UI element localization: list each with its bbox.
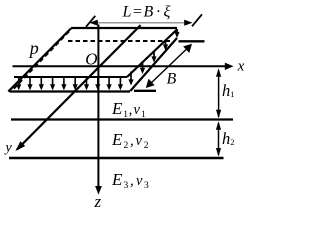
load arrow r4 (142, 61, 144, 68)
plate back-top edge (71, 27, 177, 29)
load arrow r3 (153, 51, 155, 57)
hidden left-bottom edge (dashed) (14, 32, 70, 90)
svg-text:x: x (237, 58, 245, 74)
svg-text:p: p (28, 38, 39, 58)
load arrow f9 (108, 78, 110, 85)
load arrow f10 (119, 78, 121, 85)
slash tick L right (192, 14, 202, 26)
dimension h2 (218, 123, 220, 155)
arrowhead x (225, 63, 234, 70)
y-axis (17, 25, 141, 149)
svg-text:O: O (85, 50, 97, 69)
arrowhead y (15, 141, 25, 151)
load arrow f1 (18, 78, 20, 85)
dimension h1 (218, 70, 220, 117)
load arrow f8 (97, 78, 99, 85)
layer boundary 2-3 (9, 157, 224, 160)
slash tick L left (86, 16, 95, 27)
arrowhead h1 top (216, 68, 221, 77)
svg-text:L=B·ξ: L=B·ξ (122, 4, 171, 21)
load band right lower edge (130, 38, 177, 91)
arrowhead L right (184, 20, 192, 26)
svg-text:B: B (167, 70, 177, 87)
load arrow f5 (63, 78, 65, 85)
tick bar B top (179, 40, 205, 42)
load arrow r5 (130, 72, 132, 80)
plate right-top depth edge (127, 29, 178, 77)
svg-text:y: y (4, 141, 13, 156)
arrowhead h2 bottom (216, 148, 221, 157)
plate left-top edge (8, 28, 71, 91)
dimension line L (92, 22, 190, 24)
load arrow f2 (29, 78, 31, 85)
svg-text:z: z (94, 192, 102, 211)
arrowhead h1 bottom (216, 110, 221, 119)
layer boundary 1-2 (11, 118, 233, 120)
arrowhead B top (183, 44, 192, 53)
load arrows right face (128, 30, 179, 86)
plate front-bottom edge (14, 76, 127, 78)
hidden back-bottom edge (dashed) (68, 40, 173, 42)
arrowhead z (95, 186, 102, 195)
load arrows front face (16, 78, 123, 90)
tick bar B bottom (134, 90, 156, 92)
load arrow f6 (74, 78, 76, 85)
z-axis (97, 25, 99, 188)
arrowhead L left (90, 20, 98, 26)
load baseline front (10, 90, 131, 92)
arrowhead h2 top (216, 121, 221, 130)
load arrow f4 (52, 78, 54, 85)
load arrow r1 (176, 30, 178, 32)
load arrow f7 (86, 78, 88, 85)
dimension B line (147, 45, 190, 86)
x-axis with plate front-top edge (13, 65, 232, 67)
load arrow f3 (40, 78, 42, 85)
load arrow r2 (165, 41, 167, 45)
arrowhead B bottom (146, 79, 155, 88)
